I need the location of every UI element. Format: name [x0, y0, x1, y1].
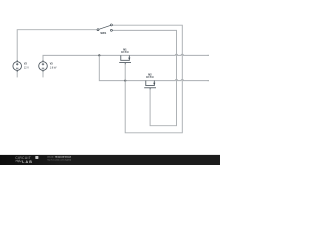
nmos M2 (IRF530) [144, 81, 156, 90]
logo box mark [35, 156, 38, 159]
rail A open end tip [208, 55, 209, 56]
wire: V2 bottom dangling stub [16, 70, 18, 77]
voltage source V2 [13, 60, 22, 72]
wire: rail A from V3 top, right across with hops, dangling end [43, 54, 209, 61]
svg-text:LAB: LAB [22, 160, 33, 164]
node B: 4-way junction M1 gate / rail B / bypass [124, 80, 126, 82]
wire: node B down, right along bottom, up to SW1 top throw [113, 25, 183, 133]
switch SW1 [97, 24, 112, 31]
svg-text:12 V: 12 V [24, 66, 29, 69]
voltage source V3 [39, 60, 48, 72]
wire: SW1 bottom throw right, down, left, up to M2 gate [113, 30, 177, 125]
svg-text:CIRCUIT: CIRCUIT [15, 156, 32, 160]
svg-text:1.8 kV: 1.8 kV [50, 66, 57, 69]
watermark bar [0, 155, 220, 165]
wire: from node A down and right as rail B with hops, dangling end [99, 55, 208, 80]
svg-text:IRF530: IRF530 [121, 51, 130, 54]
wire: V3 bottom dangling stub [42, 70, 44, 77]
svg-text:IRF530: IRF530 [146, 76, 155, 79]
logo resistor zigzag [15, 160, 22, 162]
wire: M1 gate lead down to node B [124, 64, 126, 81]
rail B open end tip [208, 80, 209, 81]
node A: junction on rail A feeding rail B [98, 54, 100, 56]
wire: V2 top up and right to SW1 common [17, 30, 97, 62]
nmos M1 (IRF530) [119, 55, 131, 64]
